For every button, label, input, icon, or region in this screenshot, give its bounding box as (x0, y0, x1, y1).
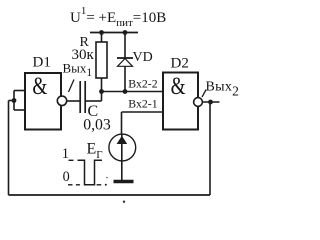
resistor R 30k body (96, 42, 107, 78)
power rail wire (90, 32, 138, 34)
D2 output stub wire (202, 101, 219, 103)
diode VD cathode bar (117, 57, 133, 59)
right feedback vertical wire (209, 102, 211, 195)
feedback wire to left (9, 100, 15, 102)
capacitor right wire (86, 100, 102, 102)
junction dot D2 output (208, 100, 213, 105)
bottom feedback wire (9, 194, 211, 196)
capacitor C left plate (79, 81, 81, 113)
stray dot artifact (106, 177, 108, 179)
Вых2 pointer slash (202, 90, 206, 98)
generator Ег circle (109, 134, 136, 161)
D1 output wire (67, 100, 80, 102)
waveform 0-level dash left2 (76, 184, 80, 186)
svg-text:VD: VD (133, 50, 153, 65)
bottom dot artifact (123, 201, 125, 203)
wire corner down to generator (121, 112, 123, 135)
D1 input tie bar wire (13, 91, 15, 111)
junction dot rail-VD (123, 30, 128, 35)
svg-text:Вх2-2: Вх2-2 (128, 77, 157, 91)
waveform 0-level dot right (105, 184, 107, 186)
diode VD top lead wire (124, 33, 126, 59)
D1 output inversion bubble (57, 96, 66, 105)
waveform 1-level dash (69, 159, 74, 161)
svg-text:0,03: 0,03 (83, 117, 111, 134)
junction dot rail-R (99, 30, 104, 35)
waveform 0-level dash right (97, 184, 102, 186)
svg-text:Вх2-1: Вх2-1 (128, 97, 157, 111)
resistor R bottom lead wire (101, 78, 103, 92)
generator Ег vertical wire (121, 135, 123, 181)
svg-text:0: 0 (63, 169, 70, 185)
waveform pulse trace (78, 160, 103, 185)
capacitor C right plate (84, 81, 86, 113)
junction dot D1 inputs (12, 98, 17, 103)
D2 input wire Вх2-1 (122, 111, 164, 113)
ground (114, 180, 134, 184)
Вых1 pointer slash (69, 80, 75, 93)
generator arrow (117, 136, 128, 144)
svg-text:D2: D2 (171, 56, 189, 72)
D1 input stub lower wire (14, 109, 25, 111)
diode VD triangle (118, 59, 133, 67)
resistor R1 top lead wire (101, 33, 103, 43)
junction dot node-VD (123, 89, 128, 94)
wire cap corner up to node (101, 92, 103, 102)
node wire R/VD to D2 input Вх2-2 (102, 91, 164, 93)
svg-text:&: & (171, 73, 186, 100)
diode VD bottom lead wire (124, 66, 126, 91)
generator wire inside circle (121, 134, 123, 161)
waveform 0-level dash left1 (68, 184, 73, 186)
op-amp D2 gate body (163, 73, 198, 130)
junction dot node-R (99, 89, 104, 94)
D1 input stub upper wire (14, 90, 25, 92)
left feedback vertical wire (8, 101, 10, 196)
D2 output inversion bubble (194, 98, 203, 107)
op-amp D1 gate body (25, 73, 61, 130)
svg-text:&: & (32, 73, 47, 100)
svg-text:1: 1 (62, 146, 69, 162)
svg-text:D1: D1 (33, 55, 51, 71)
